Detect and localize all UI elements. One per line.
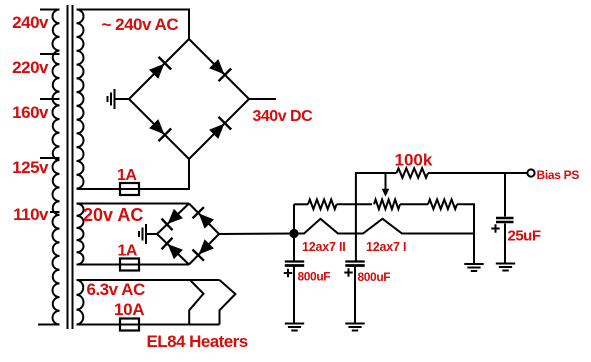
label 100k [395,151,433,170]
svg-text:110v: 110v [13,205,49,224]
wire bridge B2 ground stub [146,233,157,235]
wire primary tap bottom [38,324,60,326]
wire bridge B1 bottom-right edge [189,99,249,159]
wire row pot to R3 [400,203,428,205]
label 125v [12,158,49,177]
svg-text:12ax7 II: 12ax7 II [302,240,346,254]
svg-text:340v DC: 340v DC [253,108,314,125]
svg-text:800uF: 800uF [298,270,331,284]
svg-text:6.3v AC: 6.3v AC [87,280,145,299]
wire primary tap 240v [40,9,60,11]
transformer secondary 20v winding [77,204,84,265]
svg-text:100k: 100k [395,151,433,170]
wire 20v top tap [77,203,190,205]
label + C3 [491,224,499,232]
label 12ax7 I [366,240,406,254]
wire bridge B1 bottom-left edge [129,99,189,159]
resistor R1 (12ax7 II feed) [308,200,337,210]
wire bias rail down to C3 [504,173,506,217]
wire primary tap 125v [40,157,60,159]
transformer secondary 6.3v winding [77,280,84,325]
label + C1 [284,269,292,277]
ground at C2 [345,324,364,331]
node bias supply junction [289,229,298,238]
capacitor C1 800uF [285,262,304,266]
resistor R4 100k [397,168,429,178]
wire row R1 to pot [337,203,372,205]
svg-text:20v AC: 20v AC [83,205,143,225]
label 220v [12,58,49,77]
svg-text:125v: 125v [12,158,49,177]
wire 6.3v bottom tap [77,324,220,326]
svg-text:12ax7 I: 12ax7 I [366,240,406,254]
wire 340v DC stub [249,98,276,100]
wire bridge B2 output [219,233,294,236]
wire top bias rail left [356,173,397,204]
wire pot wiper stem [385,173,387,191]
resistor R3 (12ax7 I feed) [428,200,457,210]
svg-text:Bias PS: Bias PS [537,168,580,182]
label + C2 [344,268,352,276]
diode D6 bridge B2 top-right [193,207,214,228]
ground at C1 [285,324,304,331]
wire junction down to C1 [293,234,295,262]
svg-text:10A: 10A [114,300,144,319]
label 10A fuse F3 [114,300,144,319]
wire primary tap 160v [40,98,60,100]
diode D4 bridge B1 bottom-right [209,117,231,139]
label 110v [13,205,49,224]
wire bridge B2 bottom-left edge [157,234,189,265]
diode D2 bridge B1 top-right [209,59,231,81]
svg-text:~ 240v AC: ~ 240v AC [102,15,179,34]
wire bridge B2 top-left edge [157,204,189,235]
transformer T1 core [68,5,73,329]
wire 6.3v top tap [77,279,220,281]
transformer primary winding [52,10,59,325]
label 340v DC [253,108,314,125]
node Bias PS terminal [527,169,534,176]
potentiometer R2 body [374,200,400,210]
fuse F2 1A [120,259,139,271]
label 20v AC [83,205,143,225]
capacitor C3 25uF [496,218,514,222]
diode D3 bridge B1 bottom-left [149,119,171,141]
label ~ 240v AC [102,15,179,34]
wire junction up to resistor row [293,204,295,233]
svg-text:240v: 240v [12,13,49,32]
diode D7 bridge B2 bottom-left [162,238,183,259]
wire resistor row left segment [294,203,308,205]
label 800uF C1 [298,270,331,284]
svg-text:160v: 160v [12,103,49,122]
label 6.3v AC [87,280,145,299]
potentiometer R2 wiper arrow [382,189,390,197]
wire mid vertical to C2 [355,234,357,262]
label 12ax7 II [302,240,346,254]
wire bridge B1 top-left edge [129,39,189,99]
label 1A fuse F2 [118,243,138,260]
wire bridge B1 bottom to fuse [77,159,190,189]
capacitor C2 800uF [345,262,364,266]
wire heater hump 12ax7 I [356,219,474,234]
label 240v [12,13,49,32]
svg-text:1A: 1A [117,167,137,184]
ground at C3 [496,264,515,271]
ground at resistor row right [464,264,483,271]
wire bridge B1 ground stub [115,98,130,100]
wire primary tap 220v [40,53,60,55]
wire heater hump 12ax7 II [294,219,356,234]
label 800uF C2 [358,270,391,284]
label EL84 Heaters [147,332,248,351]
wire C2 to ground [354,267,356,324]
svg-text:800uF: 800uF [358,270,391,284]
fuse F3 10A [120,319,139,331]
svg-text:1A: 1A [118,243,138,260]
label 160v [12,103,49,122]
label Bias PS [537,168,580,182]
ground at bridge B2 [139,224,146,244]
diode D1 bridge B1 top-left [149,57,171,79]
wire HV top to bridge [77,10,190,40]
diode D5 bridge B2 top-left [162,209,183,230]
wire C3 to ground [504,224,506,264]
wire top bias rail right [428,172,528,174]
wire C1 to ground [293,267,295,324]
transformer secondary HV winding [77,10,84,189]
svg-text:EL84 Heaters: EL84 Heaters [147,332,248,351]
fuse F1 1A [120,183,139,195]
svg-text:25uF: 25uF [508,228,541,245]
wire primary tap 110v [50,211,60,213]
diode D8 bridge B2 bottom-right [193,239,214,260]
svg-text:220v: 220v [12,58,49,77]
label 25uF [508,228,541,245]
wire bridge B2 bottom-right edge [189,234,219,265]
wire heater connector inner chevron [189,280,203,325]
wire bridge B1 top-right edge [189,39,249,99]
wire vertical mid (row to heater wire) [355,204,357,233]
wire 20v bottom tap [77,264,190,266]
wire bridge B2 top-right edge [189,204,219,235]
wire heater connector outer chevron [220,280,236,325]
wire row right end down [457,204,474,264]
label 1A fuse F1 [117,167,137,184]
ground at bridge B1 [108,89,115,109]
